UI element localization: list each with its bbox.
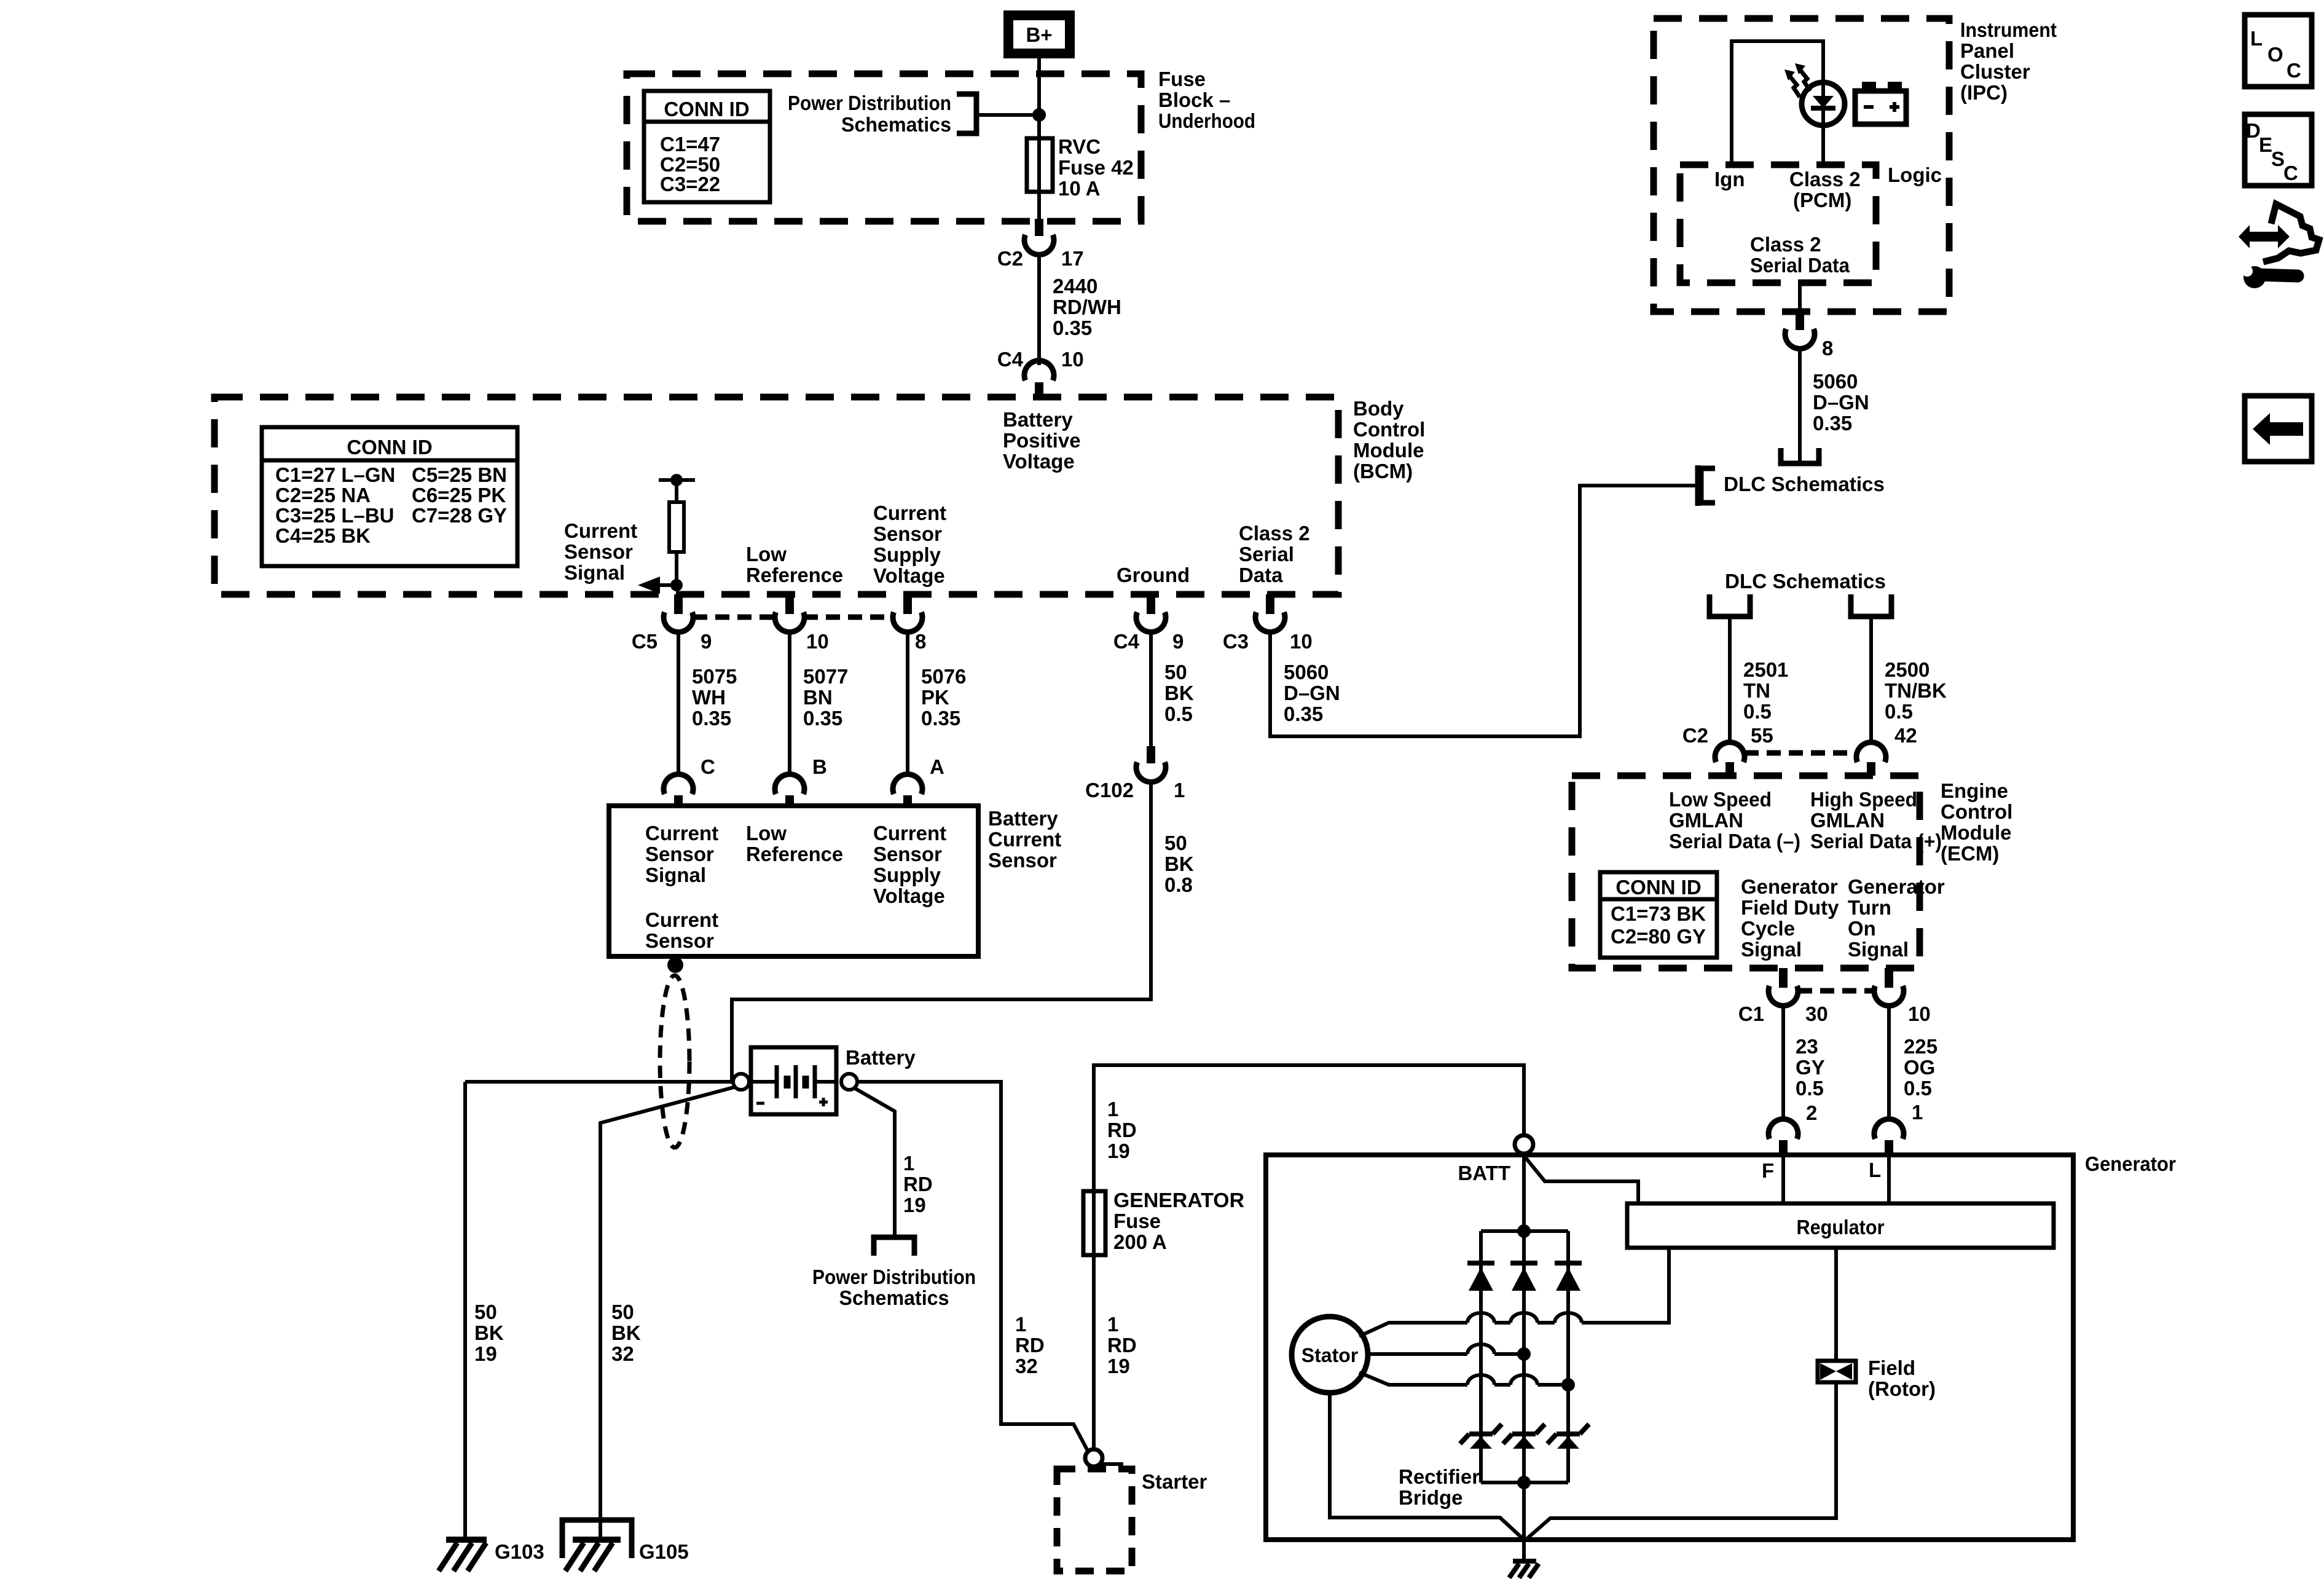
Generator Turn On Signal label [1848,875,1945,961]
svg-text:55: 55 [1751,724,1773,747]
BCM connector C4 pin 9 (ground) [1113,594,1184,653]
svg-text:C102: C102 [1085,779,1134,801]
wire 5077 BN 0.35 [790,632,848,778]
svg-text:B: B [812,755,827,778]
svg-text:GENERATOR: GENERATOR [1113,1189,1244,1211]
wire 5060 D-GN 0.35 (IPC to DLC) [1800,348,1869,461]
svg-text:5076: 5076 [921,665,966,688]
Generator Field Duty Cycle Signal label [1741,875,1839,961]
svg-text:Signal: Signal [1848,938,1909,961]
svg-text:10: 10 [1290,630,1313,653]
connector C4 pin 10 (BCM battery feed) [997,348,1084,397]
svg-text:O: O [2267,43,2283,66]
svg-text:Sensor: Sensor [873,843,942,865]
generator connector F pin [1769,1119,1798,1155]
ECM connector pin 10 [1874,968,1931,1025]
svg-text:10: 10 [1908,1002,1931,1025]
svg-text:1: 1 [1015,1313,1026,1336]
svg-text:C7=28 GY: C7=28 GY [412,504,507,527]
svg-text:C2: C2 [1682,724,1708,747]
svg-text:Sensor: Sensor [988,849,1057,872]
svg-text:C2: C2 [997,247,1023,270]
svg-text:Class 2: Class 2 [1789,168,1861,191]
bracket to Power Distribution Schematics [957,94,976,133]
svg-text:C4=25 BK: C4=25 BK [275,524,371,547]
BCM connector pin 10 (low reference) [775,594,829,653]
svg-text:C1: C1 [1738,1002,1764,1025]
wire generator BATT feed (1 RD 19) [1094,1065,1524,1191]
svg-text:Signal: Signal [645,864,706,886]
svg-text:2440: 2440 [1053,275,1097,297]
svg-text:B+: B+ [1026,23,1052,46]
svg-text:Panel: Panel [1960,39,2014,62]
svg-text:Fuse: Fuse [1158,68,1206,90]
svg-text:0.8: 0.8 [1164,873,1193,896]
fuse GENERATOR Fuse 200 A [1083,1189,1244,1255]
svg-text:1: 1 [1912,1101,1923,1124]
svg-text:E: E [2259,133,2272,156]
bracket DLC Schematics (from BCM) [1698,465,1715,506]
wire 2501 TN 0.5 [1730,616,1788,744]
svg-text:0.35: 0.35 [692,707,731,730]
svg-text:Engine: Engine [1941,779,2008,802]
upper diode 3 [1555,1263,1582,1291]
connector C102 pin 1 [1085,746,1185,801]
svg-text:C3: C3 [1223,630,1249,653]
svg-text:TN/BK: TN/BK [1885,679,1947,702]
service tool icon (arrow and wrench) [2239,204,2319,288]
svg-text:C5: C5 [632,630,658,653]
svg-text:Current: Current [873,822,946,845]
svg-text:1: 1 [1174,779,1185,801]
L terminal label and lead [1869,1155,1889,1203]
lower avalanche diode 2 [1503,1424,1545,1449]
stator winding [1292,1317,1368,1393]
svg-text:C5=25 BN: C5=25 BN [412,463,507,486]
svg-text:32: 32 [1015,1355,1038,1377]
svg-text:Low: Low [746,822,787,845]
svg-text:0.5: 0.5 [1904,1077,1932,1100]
svg-text:C3=25 L–BU: C3=25 L–BU [275,504,395,527]
svg-text:C4: C4 [997,348,1024,371]
svg-text:200 A: 200 A [1113,1231,1167,1253]
svg-text:Current: Current [645,908,718,931]
CONN ID table (BCM) [262,427,517,566]
Current Sensor Supply Voltage label (BCM) [873,502,946,587]
svg-text:D–GN: D–GN [1813,391,1869,414]
wire 50 BK 0.5 (BCM ground to C102) [1151,632,1194,746]
Rectifier Bridge label [1399,1465,1480,1509]
B+ terminal box [1008,15,1070,53]
Field (Rotor) label [1868,1357,1936,1400]
svg-text:Current: Current [645,822,718,845]
svg-text:0.35: 0.35 [803,707,842,730]
svg-text:19: 19 [474,1342,497,1365]
wire battery negative to G103 riser [465,1080,733,1084]
wire 5076 PK 0.35 [908,632,966,778]
F terminal label and lead [1762,1155,1783,1203]
svg-text:Supply: Supply [873,864,941,886]
Class 2 Serial Data label (IPC) [1750,233,1850,277]
wire battery positive to power distribution (1 RD 19) [854,1088,933,1237]
svg-text:(BCM): (BCM) [1353,460,1413,482]
Body Control Module (BCM) dashed box [214,397,1338,594]
svg-text:0.35: 0.35 [921,707,960,730]
rectifier bridge bottom bar [1481,1476,1568,1489]
svg-text:C4: C4 [1113,630,1140,653]
svg-text:9: 9 [1172,630,1184,653]
svg-text:TN: TN [1743,679,1770,702]
svg-text:C: C [2283,162,2298,184]
ground G105 with bracket [562,1520,689,1571]
svg-text:Schematics: Schematics [841,113,951,136]
svg-text:Turn: Turn [1848,896,1891,919]
svg-text:8: 8 [1822,337,1833,360]
svg-text:9: 9 [701,630,712,653]
stator ground return wire [1330,1393,1524,1540]
svg-text:WH: WH [692,686,726,709]
stator phase 1 wire to regulator [1359,1248,1669,1336]
starter terminal [1085,1449,1123,1467]
stator phase 3 wire [1359,1372,1575,1392]
svg-text:50: 50 [474,1301,497,1323]
svg-text:Serial: Serial [1239,543,1294,565]
wire 2500 TN/BK 0.5 [1871,616,1947,744]
svg-text:Module: Module [1941,821,2011,844]
svg-text:Starter: Starter [1142,1470,1207,1493]
svg-text:BK: BK [611,1321,641,1344]
wire fuse to starter (1 RD 19) [1094,1255,1137,1449]
wire 5075 WH 0.35 [678,632,737,778]
battery positive post [841,1074,857,1090]
Class 2 Serial Data label (BCM) [1239,522,1310,586]
svg-text:Schematics: Schematics [839,1286,949,1309]
lower avalanche diode 3 [1547,1424,1589,1449]
svg-text:32: 32 [611,1342,634,1365]
svg-text:Class 2: Class 2 [1750,233,1821,256]
sensor output junction dot [667,956,683,973]
svg-text:D–GN: D–GN [1284,682,1340,704]
svg-text:19: 19 [903,1194,926,1216]
svg-text:Control: Control [1941,800,2012,823]
svg-text:17: 17 [1061,247,1084,270]
svg-text:Signal: Signal [564,561,625,584]
svg-text:Supply: Supply [873,543,941,566]
svg-text:5060: 5060 [1813,370,1858,393]
svg-text:Sensor: Sensor [645,843,714,865]
svg-text:Fuse 42: Fuse 42 [1058,156,1134,179]
High Speed GMLAN Serial Data (+) label [1810,788,1942,853]
svg-text:RD/WH: RD/WH [1053,296,1121,318]
bracket DLC (2500 wire) [1851,594,1891,616]
field (rotor) winding symbol [1818,1361,1856,1382]
svg-text:Rectifier: Rectifier [1399,1465,1480,1488]
wire regulator to field [1834,1248,1838,1361]
svg-text:(Rotor): (Rotor) [1868,1377,1936,1400]
sensor connector pin A [893,774,922,806]
svg-text:S: S [2271,148,2285,170]
svg-text:5060: 5060 [1284,661,1329,683]
svg-text:42: 42 [1894,724,1917,747]
IPC internal wiring [1732,41,1823,165]
svg-text:Block –: Block – [1158,89,1230,111]
svg-text:Body: Body [1353,397,1404,420]
Class 2 (PCM) label [1789,168,1861,211]
svg-text:Serial Data (+): Serial Data (+) [1810,830,1942,853]
current sensor loop (dashed ellipse) [660,975,689,1148]
svg-text:RD: RD [1015,1334,1045,1357]
svg-text:DLC Schematics: DLC Schematics [1724,473,1885,495]
rectifier column 1 [1479,1231,1483,1483]
Instrument Panel Cluster (IPC) dashed box [1654,18,1949,312]
svg-text:0.5: 0.5 [1885,700,1913,723]
ECM connector pin 42 [1856,724,1917,776]
bracket DLC (2501 wire) [1710,594,1750,616]
svg-text:Serial Data (–): Serial Data (–) [1669,830,1800,853]
wire 50 BK 32 labels [611,1301,641,1365]
Fuse Block - Underhood label [1158,68,1255,132]
svg-text:1: 1 [1107,1098,1118,1120]
svg-text:G105: G105 [639,1540,689,1563]
svg-text:Control: Control [1353,418,1425,441]
svg-text:C1=47: C1=47 [660,133,720,156]
svg-text:RD: RD [903,1173,933,1195]
BCM connector C5 pin 9 [632,594,712,653]
BCM connector C3 pin 10 (class 2) [1223,594,1313,653]
Low Reference label (BCM) [746,543,843,586]
svg-text:Bridge: Bridge [1399,1486,1463,1509]
Body Control Module (BCM) label [1353,397,1425,482]
DESC icon box [2245,114,2312,186]
svg-text:BK: BK [1164,682,1194,704]
svg-text:0.5: 0.5 [1164,703,1193,725]
battery cell plates [751,1065,836,1106]
svg-text:Current: Current [564,519,637,542]
svg-text:Logic: Logic [1888,163,1942,186]
svg-text:1: 1 [903,1152,914,1175]
ECM connector C2 pin 55 [1682,724,1773,776]
svg-text:0.35: 0.35 [1813,412,1852,435]
rectifier bridge top bar [1481,1224,1568,1238]
ECM connector C1 pin 30 [1738,968,1828,1025]
svg-text:Sensor: Sensor [873,522,942,545]
svg-text:OG: OG [1904,1056,1935,1079]
svg-text:G103: G103 [495,1540,544,1563]
wire 50 BK 19 to G103 [465,1082,504,1538]
svg-text:Signal: Signal [1741,938,1802,961]
wire 2440 RD/WH 0.35 [1039,254,1121,365]
svg-text:0.35: 0.35 [1284,703,1323,725]
phase 1 crossover hops [1467,1313,1582,1323]
dotted connector line ECM C1 [1798,988,1874,994]
svg-text:CONN ID: CONN ID [347,436,432,459]
svg-text:C2=25 NA: C2=25 NA [275,484,371,506]
charge indicator lamp (LED) [1802,82,1845,165]
svg-text:On: On [1848,917,1876,940]
svg-text:50: 50 [1164,832,1187,854]
svg-text:Battery: Battery [988,807,1058,830]
generator case ground [1509,1540,1539,1578]
back arrow icon box [2245,396,2312,462]
current sensor signal arrow [638,577,683,594]
svg-text:Fuse: Fuse [1113,1210,1161,1232]
battery cable through sensor loop to G105 riser [600,1087,736,1538]
svg-text:BATT: BATT [1458,1162,1510,1184]
CONN ID table (fuse block) [644,91,770,202]
svg-text:Stator: Stator [1301,1344,1358,1366]
svg-text:L: L [2250,27,2263,50]
wire C3 to DLC (5060 D-GN 0.35) [1268,484,1697,738]
Current Sensor Supply Voltage label (sensor) [873,822,946,907]
Battery Positive Voltage label [1003,408,1081,473]
svg-text:GMLAN: GMLAN [1669,809,1743,832]
svg-text:(ECM): (ECM) [1941,842,1999,865]
svg-text:10 A: 10 A [1058,177,1100,200]
Engine Control Module (ECM) label [1941,779,2012,865]
svg-text:Power Distribution: Power Distribution [788,92,951,114]
svg-text:PK: PK [921,686,949,709]
Power Distribution Schematics reference (fuse block) [788,92,951,136]
svg-text:10: 10 [1061,348,1084,371]
svg-text:2500: 2500 [1885,658,1929,681]
svg-text:Data: Data [1239,564,1283,586]
svg-text:High Speed: High Speed [1810,788,1917,811]
Fuse Block - Underhood dashed box [627,74,1141,221]
svg-text:Battery: Battery [846,1046,916,1069]
wire bracket to B+ wire [976,113,1039,117]
svg-text:C: C [701,755,715,778]
svg-text:Reference: Reference [746,843,843,865]
wire 225 OG 0.5 [1889,1006,1937,1124]
bracket Power Distribution Schematics (battery) [874,1237,914,1256]
wire 50 BK 0.8 (C102 to battery negative) [730,781,1194,1080]
generator connector L pin [1874,1119,1904,1155]
connector C2 pin 17 (fuse block output) [997,219,1084,270]
svg-text:2501: 2501 [1743,658,1788,681]
svg-text:C: C [2287,59,2301,82]
svg-text:Field Duty: Field Duty [1741,896,1839,919]
Engine Control Module (ECM) dashed box [1572,776,1920,968]
Current Sensor Signal label (BCM) [564,519,637,584]
svg-text:Voltage: Voltage [873,564,945,587]
svg-text:C2=80 GY: C2=80 GY [1611,925,1706,948]
CONN ID table (ECM) [1600,872,1717,958]
svg-text:(PCM): (PCM) [1793,189,1851,211]
Generator box [1266,1152,2176,1540]
svg-text:Voltage: Voltage [1003,450,1075,473]
svg-text:Power Distribution: Power Distribution [812,1266,976,1288]
svg-text:23: 23 [1796,1035,1818,1058]
svg-text:Generator: Generator [2085,1152,2176,1175]
svg-text:GMLAN: GMLAN [1810,809,1885,832]
battery telltale icon [1855,82,1906,124]
BCM connector pin 8 (supply voltage) [893,594,926,653]
Instrument Panel Cluster (IPC) label [1960,18,2057,104]
Logic dashed box (IPC) [1680,163,1942,283]
svg-text:Field: Field [1868,1357,1915,1379]
svg-text:Instrument: Instrument [1960,18,2057,41]
svg-text:F: F [1762,1159,1774,1182]
svg-text:Underhood: Underhood [1158,109,1255,132]
svg-text:50: 50 [1164,661,1187,683]
bracket DLC Schematics (IPC) [1781,448,1819,463]
svg-text:GY: GY [1796,1056,1825,1079]
svg-text:CONN ID: CONN ID [664,98,749,120]
wire battery positive to starter (1 RD 32) [857,1080,1088,1452]
battery box [751,1046,916,1114]
svg-text:30: 30 [1805,1002,1828,1025]
IPC output connector pin 8 [1785,283,1833,360]
Battery Current Sensor label [988,807,1061,872]
ground G103 [439,1540,544,1571]
lower avalanche diode 1 [1460,1424,1502,1449]
svg-text:19: 19 [1107,1355,1130,1377]
svg-text:Battery: Battery [1003,408,1073,431]
svg-text:8: 8 [915,630,926,653]
svg-text:CONN ID: CONN ID [1615,876,1701,899]
LED arrows [1784,63,1810,97]
svg-text:225: 225 [1904,1035,1937,1058]
svg-text:A: A [930,755,944,778]
resistor (BCM current sensor signal pull-up) [659,474,695,589]
svg-text:Positive: Positive [1003,429,1081,452]
svg-text:Class 2: Class 2 [1239,522,1310,545]
svg-text:0.35: 0.35 [1053,317,1092,339]
svg-text:Low: Low [746,543,787,565]
Current Sensor Signal label (sensor) [645,822,718,886]
svg-text:19: 19 [1107,1140,1130,1162]
svg-text:Sensor: Sensor [645,929,714,952]
svg-text:DLC Schematics: DLC Schematics [1725,570,1886,593]
svg-text:Reference: Reference [746,564,843,586]
svg-text:BN: BN [803,686,833,709]
svg-text:Sensor: Sensor [564,540,633,563]
Starter dashed box [1057,1469,1207,1571]
sensor connector pin C [664,774,693,806]
Battery Current Sensor box [609,806,978,956]
svg-text:Current: Current [873,502,946,524]
BATT internal bus [1522,1154,1526,1540]
svg-text:BK: BK [474,1321,504,1344]
field ground return wire [1526,1382,1836,1540]
Low Reference label (sensor) [746,822,843,865]
svg-text:C6=25 PK: C6=25 PK [412,484,506,506]
svg-text:Generator: Generator [1848,875,1945,898]
Current Sensor label (sensor) [645,908,718,952]
svg-text:10: 10 [806,630,829,653]
stator phase 2 wire [1368,1344,1531,1361]
svg-text:Module: Module [1353,439,1424,462]
svg-text:C3=22: C3=22 [660,173,720,195]
svg-text:Current: Current [988,828,1061,851]
svg-text:Generator: Generator [1741,875,1838,898]
svg-text:Low Speed: Low Speed [1669,788,1772,811]
battery negative post [733,1074,749,1090]
svg-text:C1=73 BK: C1=73 BK [1611,902,1706,925]
svg-text:Regulator: Regulator [1797,1216,1885,1238]
sensor connector pin B [775,774,804,806]
svg-text:Ground: Ground [1117,564,1190,586]
svg-text:0.5: 0.5 [1796,1077,1824,1100]
svg-text:RD: RD [1107,1119,1137,1141]
svg-text:C1=27 L–GN: C1=27 L–GN [275,463,395,486]
svg-text:Serial Data: Serial Data [1750,254,1850,277]
svg-text:RVC: RVC [1058,135,1101,158]
svg-text:RD: RD [1107,1334,1137,1357]
svg-text:1: 1 [1107,1313,1118,1336]
svg-text:Cycle: Cycle [1741,917,1795,940]
svg-text:BK: BK [1164,853,1194,875]
